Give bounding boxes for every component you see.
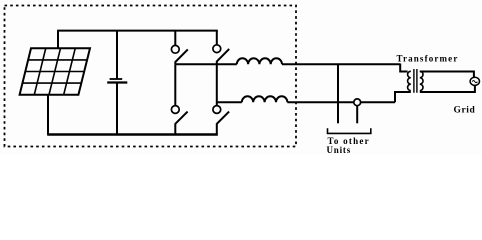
wire: lower rail to transformer	[287, 101, 395, 103]
AC grid source symbol	[470, 77, 479, 85]
wire: top DC bus	[57, 30, 218, 32]
solar panel PV1 outline	[20, 48, 90, 94]
wire: step down into transformer primary top	[400, 64, 407, 72]
switch S2 lower lead	[216, 61, 218, 64]
capacitor C1 plates	[110, 78, 123, 80]
inductor L2	[242, 96, 288, 102]
switch S4 (bottom-right) contact circle	[213, 106, 221, 114]
capacitor C1 top lead	[116, 31, 118, 79]
dashed enclosure (inverter unit boundary)	[5, 6, 297, 147]
switch S4 lower lead to bottom bus	[216, 123, 218, 134]
wire: upper rail to transformer	[282, 63, 400, 65]
bracket under branch wires	[328, 128, 371, 133]
wire: secondary bottom to grid	[420, 86, 475, 93]
wire: bottom DC bus	[47, 133, 218, 135]
switch S4 blade	[217, 112, 229, 124]
tap connector circle on lower rail	[354, 99, 361, 106]
wire: left leg between mid rail and lower switch	[174, 64, 176, 105]
solar panel PV1 grid lines	[22, 48, 87, 94]
transformer T1 secondary winding	[420, 71, 423, 90]
wire: branch down to other units (left conductor)	[337, 64, 339, 123]
switch S3 lower lead to bottom bus	[174, 123, 176, 134]
svg-text:Grid: Grid	[454, 106, 476, 116]
switch S3 blade	[175, 112, 187, 124]
wire: panel negative lead down to bottom bus	[47, 95, 49, 135]
wire: upper output rail from left leg	[175, 63, 237, 65]
switch S1 (top-left) lead from bus	[174, 31, 176, 46]
svg-text:Units: Units	[327, 145, 352, 155]
wire: primary bottom return to lower rail	[395, 92, 411, 102]
switch S3 (bottom-left) contact circle	[171, 106, 179, 114]
capacitor C1 bottom lead	[116, 83, 118, 135]
switch S1 blade	[175, 49, 188, 62]
AC sine mark inside grid symbol	[472, 81, 477, 83]
inductor L1	[237, 58, 282, 64]
switch S2 blade	[217, 49, 229, 62]
switch S1 lower lead	[174, 62, 176, 65]
svg-text:Transformer: Transformer	[397, 53, 459, 63]
transformer T1 primary winding	[408, 71, 411, 90]
wire: secondary top to grid	[420, 72, 474, 78]
wire: tap stem down (right conductor)	[356, 106, 358, 124]
switch S1 contact circle	[171, 45, 179, 53]
wire: right leg between mid rail and lower switch	[216, 64, 218, 105]
wire: lower output rail from right leg	[217, 101, 242, 103]
wire: panel positive lead up to DC bus	[57, 31, 59, 49]
switch S2 (top-right) lead from bus	[216, 31, 218, 45]
transformer T1 core	[414, 69, 417, 93]
switch S2 contact circle	[213, 45, 221, 53]
